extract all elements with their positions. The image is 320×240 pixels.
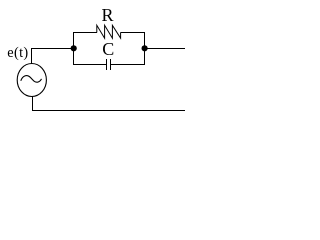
ac source circle e(t) bbox=[17, 64, 46, 97]
wire: main right horizontal from node B to output bbox=[145, 48, 186, 50]
svg-text:e(t): e(t) bbox=[7, 45, 28, 61]
ac source sine tilde bbox=[21, 76, 42, 83]
wire: bottom return horizontal bbox=[32, 110, 185, 112]
capacitor C right plate bbox=[110, 59, 112, 70]
junction dot node B bbox=[142, 45, 148, 51]
wire: main left horizontal from source to node A bbox=[31, 48, 73, 50]
svg-text:C: C bbox=[102, 39, 114, 59]
wire: resistor branch left segment bbox=[73, 32, 97, 34]
wire: source bottom lead bbox=[32, 96, 34, 111]
wire: capacitor branch right segment bbox=[111, 64, 145, 66]
junction dot node A bbox=[71, 45, 77, 51]
resistor R zigzag body bbox=[97, 25, 121, 38]
wire: left vertical (node A riser) bbox=[73, 32, 75, 65]
capacitor C left plate bbox=[106, 59, 108, 70]
svg-text:R: R bbox=[102, 5, 114, 25]
wire: source top lead bbox=[31, 48, 33, 64]
wire: capacitor branch left segment bbox=[73, 64, 106, 66]
wire: right vertical (node B riser) bbox=[144, 32, 146, 65]
wire: resistor branch right segment bbox=[121, 32, 146, 34]
